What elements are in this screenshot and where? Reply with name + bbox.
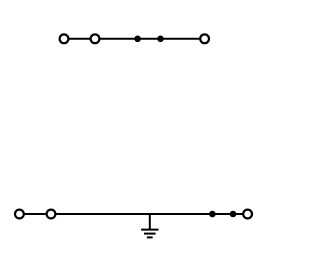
wire ground drop <box>149 214 151 230</box>
wire upper potential rail <box>64 38 205 40</box>
junction upper jumper contact 1 <box>134 36 141 43</box>
ground bar short <box>147 236 153 238</box>
ground bar middle <box>144 233 156 235</box>
terminal lower clamp right <box>243 210 252 219</box>
wire lower PE rail <box>19 213 247 215</box>
junction upper jumper contact 2 <box>157 36 164 43</box>
terminal upper clamp left <box>60 34 69 43</box>
ground earth symbol <box>141 214 158 237</box>
terminal upper clamp right <box>200 34 209 43</box>
junction lower jumper contact 1 <box>209 211 216 218</box>
terminal upper clamp mid <box>91 34 100 43</box>
terminal lower clamp left <box>15 210 24 219</box>
junction lower jumper contact 2 <box>230 211 237 218</box>
terminal lower clamp mid <box>47 210 56 219</box>
ground bar long <box>141 229 158 231</box>
